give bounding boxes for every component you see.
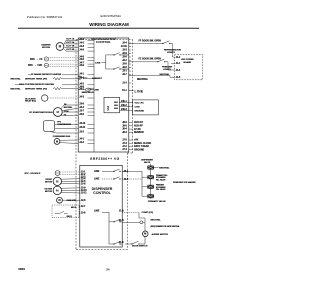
svg-text:MOTOR: MOTOR	[45, 191, 53, 193]
wire condenser 1	[60, 139, 78, 141]
wire to LED J1-2	[170, 43, 172, 45]
wire evap NEUTRAL	[62, 106, 78, 111]
damper wire OUT 2A	[64, 41, 78, 44]
svg-text:J1-6: J1-6	[119, 211, 124, 213]
svg-text:J3-13: J3-13	[79, 123, 86, 125]
board1 right pin J1-2 stub	[122, 83, 131, 85]
svg-text:J7-4: J7-4	[122, 148, 127, 151]
svg-text:J2-8: J2-8	[122, 64, 127, 66]
thermistor NTC-ICE MOLD	[25, 171, 60, 176]
line fuse F1	[78, 88, 99, 94]
svg-text:NEUTRAL: NEUTRAL	[159, 166, 170, 169]
svg-text:DEFROST TERM. (FZ): DEFROST TERM. (FZ)	[25, 88, 47, 90]
ice mold sensor dashed box	[52, 205, 79, 218]
freezer fan motor	[45, 177, 62, 185]
wire mold box top pin	[78, 206, 81, 208]
switch to J1-4	[109, 219, 124, 222]
ice cube motor	[57, 197, 77, 203]
svg-text:J4-4: J4-4	[79, 38, 84, 41]
svg-text:MAIN RELAY: MAIN RELAY	[82, 91, 95, 94]
board1 right edge pin labels J30	[121, 101, 128, 111]
svg-text:J4-3: J4-3	[79, 96, 84, 99]
svg-text:J4-2: J4-2	[79, 41, 84, 44]
wire auger to door switch	[144, 237, 146, 244]
wire evap COM	[62, 111, 78, 113]
svg-text:RELAY (DC): RELAY (DC)	[25, 100, 36, 103]
svg-text:MOLD: MOLD	[71, 207, 77, 209]
wire comp dashed from J1-6	[119, 211, 153, 214]
svg-text:J2-1: J2-1	[122, 71, 127, 73]
switch FZ door SW2	[157, 59, 165, 62]
svg-text:DATA 7 READ: DATA 7 READ	[134, 145, 149, 148]
wire FZ door switch to freezer lights	[129, 59, 161, 62]
svg-text:J4-1: J4-1	[79, 138, 84, 141]
wire UI-A to J30-1	[120, 102, 133, 104]
svg-text:SW (F): SW (F)	[67, 216, 73, 218]
svg-text:FILL VALVE: FILL VALVE	[156, 178, 166, 181]
wire J4-5 to valve rail dashed	[122, 178, 142, 180]
FFC compressor	[43, 121, 71, 132]
svg-text:J7-2: J7-2	[122, 146, 127, 148]
svg-text:J2-6: J2-6	[122, 57, 127, 59]
svg-text:J3-4: J3-4	[79, 106, 84, 109]
klixon relay (DC)	[25, 95, 48, 103]
svg-text:NTC: NTC	[30, 58, 35, 61]
svg-text:PRIMARY VALVE: PRIMARY VALVE	[148, 200, 166, 203]
ice fan motor	[45, 186, 62, 194]
wire NTC-FZR pair	[48, 63, 78, 65]
svg-text:MOTOR: MOTOR	[45, 182, 53, 184]
svg-text:CUBE MTR: CUBE MTR	[67, 200, 77, 202]
wire freezer fan 3	[61, 182, 80, 185]
svg-text:ERF2500++ VG: ERF2500++ VG	[90, 157, 119, 161]
svg-text:FF MAINS DEFROST HEATER: FF MAINS DEFROST HEATER	[31, 73, 62, 76]
wire compressor 2	[55, 128, 78, 130]
svg-text:J2-2: J2-2	[122, 60, 127, 62]
wire FF door switch to refrigerator lights	[129, 40, 163, 43]
svg-text:FZ /FF: FZ /FF	[134, 129, 141, 131]
wire feed coil3	[142, 186, 147, 188]
cabinet dashed top edge	[76, 39, 133, 41]
svg-text:J2-3: J2-3	[122, 50, 127, 52]
wire ice fan 3	[61, 192, 80, 195]
svg-text:J1-5: J1-5	[119, 242, 124, 244]
svg-text:J2-9: J2-9	[81, 187, 86, 189]
svg-text:J7-3: J7-3	[122, 143, 127, 145]
svg-text:J8-4: J8-4	[122, 128, 127, 131]
svg-text:MOTOR: MOTOR	[42, 47, 50, 49]
valve rail vertical	[149, 164, 151, 199]
board1 right edge pin labels J2	[121, 42, 131, 77]
svg-text:J2-11: J2-11	[81, 193, 87, 195]
wire main heater top	[62, 84, 78, 86]
external connector box J30	[133, 100, 159, 115]
svg-text:CONTROL: CONTROL	[96, 40, 111, 44]
svg-text:M: M	[59, 45, 62, 49]
svg-text:J3-5: J3-5	[79, 114, 84, 116]
svg-text:FREEZER ICE MAKER: FREEZER ICE MAKER	[173, 181, 196, 184]
wire evap VS	[61, 115, 78, 117]
refrigerator control board U1	[78, 38, 129, 152]
svg-text:J2-8: J2-8	[81, 213, 86, 215]
thermistor NTC-FZR	[28, 63, 48, 67]
cabinet dashed right edge upper	[132, 40, 134, 154]
svg-text:E23CS78GPS3A: E23CS78GPS3A	[101, 14, 122, 18]
damper wire OUT 2B	[64, 49, 78, 51]
svg-text:J4-2: J4-2	[79, 82, 84, 85]
wire neutral to LED J1-3	[129, 73, 175, 81]
svg-text:COM: COM	[135, 107, 140, 109]
svg-text:J4-3: J4-3	[79, 45, 84, 48]
LED power board U3	[175, 55, 203, 80]
wire mold box bottom pin	[78, 212, 81, 214]
svg-text:C1-1: C1-1	[122, 90, 128, 92]
damper motor	[41, 43, 63, 51]
wire evap FB	[61, 104, 78, 109]
svg-text:J3-6: J3-6	[79, 104, 84, 106]
wire FF heater top	[62, 74, 78, 76]
svg-text:CONTROL: CONTROL	[93, 191, 112, 195]
svg-text:FF DOOR SW. OPEN: FF DOOR SW. OPEN	[139, 40, 162, 42]
cabinet dashed right edge lower	[127, 153, 129, 250]
svg-text:J2-7: J2-7	[122, 74, 127, 76]
svg-text:OUT 1A: OUT 1A	[66, 37, 74, 40]
svg-text:LIGHTS: LIGHTS	[167, 52, 175, 54]
svg-text:LINE: LINE	[94, 210, 100, 212]
wire feed coil4	[142, 195, 147, 197]
door switch	[125, 241, 148, 247]
thermistor NTC-FF	[30, 57, 48, 61]
UI-A connector box inside board1	[104, 97, 120, 113]
svg-text:J1-3: J1-3	[176, 77, 181, 79]
svg-text:M: M	[58, 199, 60, 202]
valve feed rail	[141, 171, 143, 196]
solenoid coil L2 primary fill	[148, 176, 154, 179]
svg-text:J4-1: J4-1	[79, 72, 84, 75]
wire LINE to J4-5 dashed	[94, 177, 129, 181]
wire LINE vertical inside board2	[94, 210, 109, 244]
wire to LED J1-4	[165, 61, 168, 63]
svg-text:J2-6: J2-6	[81, 200, 86, 202]
wire NTC ice mold pair	[60, 171, 80, 173]
svg-text:J1-2: J1-2	[176, 57, 181, 59]
svg-text:SENSOR: SENSOR	[134, 132, 144, 134]
wire ice fan 1	[61, 187, 80, 190]
svg-text:FZR: FZR	[38, 64, 43, 67]
svg-text:FZ DOOR SW. OPEN: FZ DOOR SW. OPEN	[139, 59, 162, 61]
svg-text:J4-9: J4-9	[79, 64, 84, 67]
svg-text:LINE: LINE	[95, 63, 101, 65]
svg-text:J2-4: J2-4	[122, 42, 127, 45]
svg-text:J30-3: J30-3	[121, 109, 128, 111]
svg-text:J3-21: J3-21	[79, 127, 86, 129]
svg-text:J8-6: J8-6	[122, 122, 127, 124]
neutral terminal	[122, 219, 161, 224]
svg-text:J1-4: J1-4	[119, 219, 124, 222]
wire NTC-FF pair	[48, 57, 78, 59]
cabinet dashed step	[128, 152, 133, 154]
auger motor	[143, 231, 169, 237]
svg-text:NEUTRAL: NEUTRAL	[151, 219, 162, 222]
wire UI-A to J30-2	[120, 106, 133, 108]
condenser fan motor	[53, 135, 71, 144]
wire compressor 3	[50, 132, 56, 134]
svg-text:J3-7: J3-7	[79, 111, 84, 113]
svg-text:MAIN SYSTEM DEFROST HEATER: MAIN SYSTEM DEFROST HEATER	[19, 83, 54, 86]
svg-text:J8-3: J8-3	[122, 132, 127, 134]
svg-text:J4-5: J4-5	[124, 178, 129, 181]
svg-text:J1-1: J1-1	[176, 63, 181, 65]
switch to J1-5	[109, 242, 124, 245]
wire comp down	[138, 212, 140, 218]
solenoid coil L1 dispenser	[148, 166, 154, 169]
svg-text:J4-1: J4-1	[79, 87, 84, 90]
svg-text:LINE: LINE	[94, 179, 100, 181]
svg-text:J2-9: J2-9	[122, 53, 127, 55]
DC evaporator fan motor	[29, 108, 62, 117]
resistor FF defrost heater	[11, 78, 63, 81]
wire compressor 1	[55, 124, 78, 126]
svg-text:J38-1: J38-1	[114, 102, 118, 104]
board1 right pins J8 group	[122, 121, 144, 134]
solenoid coil L4 primary valve	[148, 195, 154, 198]
resistor main defrost heater	[11, 87, 63, 90]
svg-text:SERIAL CLOCK: SERIAL CLOCK	[134, 142, 152, 145]
damper wire OUT 1A	[64, 37, 78, 44]
svg-text:J1-2: J1-2	[122, 83, 127, 85]
auger vertical wire	[144, 222, 146, 231]
wire feed coil2	[142, 176, 147, 178]
svg-text:J2-5: J2-5	[122, 67, 127, 69]
svg-text:DOOR SWITCH: DOOR SWITCH	[132, 246, 148, 248]
svg-text:10/15: 10/15	[18, 267, 25, 271]
svg-text:J38-2: J38-2	[114, 105, 118, 107]
svg-text:J8-5: J8-5	[122, 125, 127, 127]
svg-text:NTC: NTC	[28, 64, 33, 67]
svg-text:AUX /FF: AUX /FF	[134, 125, 144, 128]
svg-text:24: 24	[106, 267, 110, 271]
wire klixon	[48, 97, 78, 99]
svg-text:J7-5: J7-5	[122, 140, 127, 142]
wire UI-A to J30-3	[120, 110, 133, 112]
svg-text:DEFROST TERM. (FF): DEFROST TERM. (FF)	[25, 79, 47, 81]
svg-text:AUGER MOTOR: AUGER MOTOR	[152, 233, 169, 236]
svg-text:WIRING DIAGRAM: WIRING DIAGRAM	[89, 22, 129, 27]
damper wire OUT 1B	[64, 46, 78, 48]
svg-text:LED POWER: LED POWER	[181, 59, 194, 61]
svg-text:VCC I-FC: VCC I-FC	[135, 103, 145, 105]
svg-text:J38-3: J38-3	[114, 108, 118, 110]
svg-text:GROUND: GROUND	[134, 149, 145, 151]
wire LINE stub	[129, 89, 144, 93]
thermistor NTC-AMBIENT	[78, 76, 103, 80]
svg-text:M: M	[144, 233, 146, 236]
wire cube motor	[62, 199, 79, 201]
svg-text:J4-6: J4-6	[79, 49, 84, 52]
svg-text:LINE: LINE	[135, 89, 144, 93]
svg-text:BOARD: BOARD	[183, 61, 191, 64]
wire freezer fan 1	[61, 178, 80, 181]
svg-text:CONDENSER FAN: CONDENSER FAN	[53, 135, 71, 138]
svg-text:NTC - ICE MOLD: NTC - ICE MOLD	[25, 173, 41, 175]
svg-text:J30-2: J30-2	[121, 105, 128, 107]
svg-text:NEUTRAL: NEUTRAL	[11, 87, 22, 90]
main relay K1 inside board1	[95, 53, 129, 70]
header rule	[18, 27, 199, 29]
board2 left edge pin labels	[81, 172, 88, 215]
svg-text:COMP (FD): COMP (FD)	[142, 212, 154, 214]
svg-text:UI A: UI A	[107, 106, 110, 111]
svg-text:LINE: LINE	[94, 171, 100, 173]
svg-text:VALVE: VALVE	[144, 161, 151, 164]
svg-text:J30-1: J30-1	[121, 101, 128, 103]
svg-text:FILL VALVE: FILL VALVE	[156, 188, 166, 191]
wire ice fan 2	[62, 189, 80, 191]
board1 left edge pin labels and stubs	[79, 38, 94, 144]
dispenser control board U2	[80, 165, 122, 247]
board1 right pins J7 group	[122, 140, 151, 152]
svg-text:Publication No. 5995537142: Publication No. 5995537142	[27, 15, 63, 19]
svg-text:NEUTRAL: NEUTRAL	[64, 106, 73, 109]
svg-text:+5V: +5V	[134, 140, 139, 142]
board1 internal connector column	[93, 38, 95, 152]
svg-text:OUT 2A: OUT 2A	[66, 41, 74, 44]
svg-text:NEUTRAL: NEUTRAL	[160, 73, 171, 76]
wire main heater bottom	[62, 88, 78, 90]
svg-text:J4-2: J4-2	[79, 141, 84, 144]
cabinet dashed boundary	[75, 40, 77, 250]
svg-text:AUX /FZ: AUX /FZ	[134, 121, 144, 124]
svg-text:J2-6: J2-6	[81, 184, 86, 186]
switch FF door SW1	[162, 41, 170, 44]
svg-text:J4-5: J4-5	[79, 58, 84, 61]
wire freezer fan 2	[62, 180, 80, 182]
wire coil1 to neutral	[154, 166, 170, 169]
stub LED J1-1	[171, 62, 175, 64]
wire LINE to J3-1	[94, 169, 129, 173]
wire J3-1 to valve rail	[122, 170, 142, 172]
svg-text:NEUTRAL: NEUTRAL	[137, 78, 149, 81]
svg-text:NEUTRAL: NEUTRAL	[11, 78, 22, 81]
wire condenser 2	[60, 142, 78, 145]
svg-text:J1-4: J1-4	[176, 69, 181, 72]
svg-text:J2-10: J2-10	[121, 46, 128, 48]
svg-text:J2-7: J2-7	[81, 206, 86, 208]
cabinet dashed bottom edge	[76, 249, 128, 251]
svg-text:GROUND: GROUND	[135, 111, 145, 113]
svg-text:NTC: NTC	[83, 78, 88, 80]
svg-text:J3-2: J3-2	[79, 132, 84, 134]
svg-text:LINE: LINE	[94, 89, 100, 91]
svg-text:AMBIENT: AMBIENT	[92, 77, 103, 80]
solenoid coil L3 freezer fill	[148, 185, 154, 188]
svg-text:LIGHTS: LIGHTS	[163, 69, 171, 71]
svg-text:M: M	[56, 140, 58, 143]
svg-text:DC EVAPORATOR FAN: DC EVAPORATOR FAN	[29, 111, 53, 114]
svg-text:(W/D) DRAWER ICE GATE NEUTRAL: (W/D) DRAWER ICE GATE NEUTRAL	[151, 225, 180, 228]
wire FF heater bottom	[62, 78, 78, 80]
